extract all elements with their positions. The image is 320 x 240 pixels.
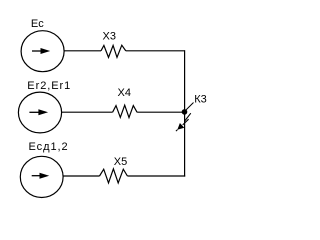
wire Есд to X5 xyxy=(63,175,99,177)
wire X3 to bus xyxy=(126,50,185,52)
arrow in Ec xyxy=(32,48,50,54)
svg-text:Er2,Er1: Er2,Er1 xyxy=(27,80,71,92)
generator Есд1,2 xyxy=(20,156,63,197)
wire Ec to X3 xyxy=(64,50,101,52)
arrow in Er2,Er1 xyxy=(29,109,48,115)
svg-text:X4: X4 xyxy=(118,87,131,99)
resistor X4 xyxy=(113,105,138,117)
K3 leader line xyxy=(185,103,193,111)
generator Ec xyxy=(21,31,64,72)
generator Er2,Er1 xyxy=(18,92,61,133)
svg-text:Есд1,2: Есд1,2 xyxy=(29,141,69,153)
arrow in Есд1,2 xyxy=(32,173,50,179)
svg-text:Ec: Ec xyxy=(31,18,44,30)
svg-text:X3: X3 xyxy=(103,31,116,43)
resistor X3 xyxy=(101,45,126,57)
svg-text:X5: X5 xyxy=(114,156,127,168)
svg-text:К3: К3 xyxy=(194,93,207,105)
wire X4 to node K3 xyxy=(137,111,185,113)
wire Er to X4 xyxy=(62,111,113,113)
bus wire vertical xyxy=(184,50,186,176)
resistor X5 xyxy=(100,169,128,183)
short-circuit lightning arrow xyxy=(176,113,191,131)
wire X5 to bus corner xyxy=(127,175,185,177)
node K3 junction dot xyxy=(182,109,188,115)
